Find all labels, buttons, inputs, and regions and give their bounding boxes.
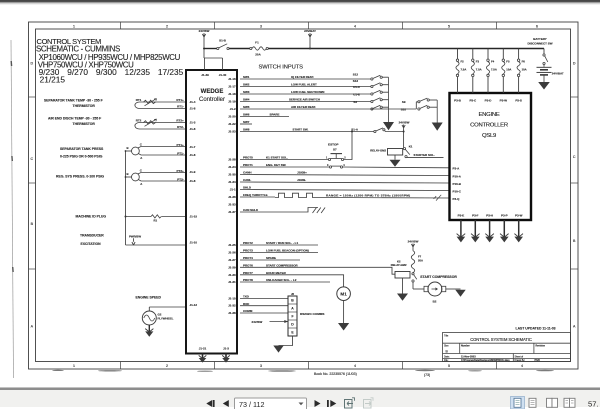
node RT1+ (176, 98, 184, 109)
drawing frame inner border (36, 29, 571, 362)
svg-text:SWITCH INPUTS: SWITCH INPUTS (259, 65, 304, 71)
svg-text:J1-23: J1-23 (228, 130, 236, 134)
svg-text:B: B (127, 172, 129, 176)
svg-text:S3: S3 (353, 100, 357, 104)
svg-text:J1-1: J1-1 (230, 188, 236, 192)
ground B2 (455, 290, 465, 297)
svg-text:MACHINE ID PLUG: MACHINE ID PLUG (76, 215, 107, 219)
svg-text:S1-B: S1-B (219, 39, 226, 43)
svg-text:SPARE: SPARE (270, 113, 280, 117)
wire S9 S10 collector (436, 100, 438, 123)
ground battery (538, 82, 550, 90)
svg-text:C: C (573, 155, 576, 159)
scanned page left edge artifact line (11, 40, 14, 378)
ground under K2 (397, 294, 408, 301)
label reg sys press (56, 175, 104, 179)
svg-text:S9: S9 (402, 100, 406, 104)
fuse F5 10A (502, 49, 505, 94)
svg-text:(73): (73) (424, 373, 430, 377)
svg-text:QSL9: QSL9 (482, 133, 496, 139)
svg-text:57.: 57. (588, 400, 599, 409)
hour meter M1 (337, 287, 351, 301)
svg-text:F3: F3 (476, 60, 480, 64)
svg-text:J1-22: J1-22 (228, 122, 236, 126)
power tap 24V/SW to J5 pin D (252, 320, 289, 324)
svg-text:P10-A: P10-A (453, 174, 462, 178)
pin labels WEDGE left side (190, 100, 198, 307)
label engine speed (136, 296, 162, 300)
wire stub J1-21 ground (199, 354, 207, 363)
icon facing pages (547, 398, 558, 407)
switch S1-A start switch (351, 128, 403, 133)
pin name labels switch rows (243, 75, 250, 132)
svg-text:4: 4 (354, 24, 356, 28)
svg-text:P3-S: P3-S (515, 99, 522, 103)
wire CANL to P10-B (240, 182, 450, 183)
svg-text:THERMISTOR: THERMISTOR (73, 104, 96, 108)
svg-text:J1-34: J1-34 (228, 180, 236, 184)
svg-text:C: C (140, 142, 142, 146)
svg-text:R1: R1 (154, 218, 158, 222)
wire SW8 row start sw (240, 131, 374, 133)
svg-text:EXCITATION: EXCITATION (81, 242, 102, 246)
svg-text:A: A (31, 325, 34, 329)
svg-text:J1-25: J1-25 (228, 243, 236, 247)
wire PROT6 start compressor (240, 267, 395, 274)
svg-text:1: 1 (73, 364, 75, 368)
svg-text:A: A (140, 156, 142, 160)
svg-text:J1-8: J1-8 (190, 179, 196, 183)
label transducer excitation (80, 233, 104, 246)
node RT2+ (176, 119, 184, 130)
switch SW4 contact (371, 98, 389, 103)
svg-text:Number: Number (461, 346, 470, 348)
svg-text:Size: Size (444, 346, 449, 348)
svg-text:K1: K1 (409, 145, 413, 149)
label separator tank press (60, 147, 104, 159)
svg-text:J1-10: J1-10 (190, 241, 198, 245)
switch S10 (401, 105, 437, 111)
svg-text:HOUR METER: HOUR METER (266, 271, 287, 275)
svg-text:P3-D: P3-D (485, 99, 492, 103)
svg-text:P3-P: P3-P (501, 214, 508, 218)
pin labels WEDGE right side lower (228, 243, 236, 315)
svg-text:3: 3 (260, 364, 262, 368)
svg-text:J5: J5 (291, 292, 295, 296)
svg-text:2: 2 (166, 364, 168, 368)
svg-text:S7: S7 (333, 148, 337, 152)
svg-text:RANGE = 150Hz (1200 RPM) TO 37: RANGE = 150Hz (1200 RPM) TO 375Hz (1800R… (326, 193, 410, 197)
svg-text:RT1+: RT1+ (176, 98, 184, 102)
svg-text:SERVICE AIR SWITCH: SERVICE AIR SWITCH (289, 98, 320, 102)
wire TXD (240, 298, 288, 300)
wire SW1 row (240, 78, 371, 80)
svg-text:PWR/SW: PWR/SW (129, 234, 141, 238)
svg-text:SEPARATOR TANK TEMP -30 - 255: SEPARATOR TANK TEMP -30 - 255 F (44, 99, 103, 103)
svg-text:THERMISTOR: THERMISTOR (73, 122, 96, 126)
wire PROT5 K1 start sol (240, 159, 328, 161)
wire M1 to ground (343, 301, 345, 324)
svg-text:J1-3: J1-3 (190, 121, 196, 125)
label page number 73 (424, 373, 430, 377)
svg-text:SEPARATOR TANK PRESS: SEPARATOR TANK PRESS (60, 147, 104, 151)
fuse F4 7.5A (486, 49, 489, 94)
svg-text:J1-33: J1-33 (228, 203, 236, 207)
svg-text:B2: B2 (433, 300, 437, 304)
svg-text:24V/SW: 24V/SW (399, 121, 410, 125)
svg-text:10A: 10A (522, 68, 527, 72)
svg-text:J1-39: J1-39 (201, 73, 209, 77)
pin labels engine controller bottom (458, 214, 523, 218)
svg-text:7.5A: 7.5A (491, 68, 497, 72)
svg-text:J1-9: J1-9 (190, 170, 196, 174)
pin labels WEDGE bottom (199, 347, 230, 351)
svg-text:BATTERY: BATTERY (533, 37, 547, 41)
icon previous view (345, 398, 355, 408)
svg-text:M1: M1 (340, 292, 347, 297)
frame zone numbers bottom (73, 364, 523, 368)
svg-text:J1-8: J1-8 (190, 153, 196, 157)
svg-text:F1: F1 (255, 40, 259, 44)
svg-text:RT2-: RT2- (177, 125, 184, 129)
frame zone letters right (573, 62, 576, 329)
frame zone dividers right (571, 97, 579, 269)
fuse F3 7.5A (471, 49, 474, 94)
icon continuous page (529, 398, 536, 407)
pin labels engine controller left (453, 167, 462, 201)
svg-text:P3-W: P3-W (515, 214, 523, 218)
svg-text:J1-26: J1-26 (228, 251, 236, 255)
svg-text:P3-A: P3-A (453, 167, 461, 171)
svg-text:J1-19: J1-19 (228, 100, 236, 104)
svg-text:ENGINE SPEED: ENGINE SPEED (136, 296, 162, 300)
svg-text:2: 2 (166, 24, 168, 28)
icon next page (315, 400, 321, 407)
svg-text:J1-30: J1-30 (228, 273, 236, 277)
controller U1 WEDGE box (186, 70, 237, 354)
svg-text:P3-B: P3-B (454, 99, 461, 103)
svg-text:S10: S10 (401, 108, 407, 112)
wire PROT8 unloader sol (240, 281, 330, 283)
svg-text:J1-40: J1-40 (219, 73, 227, 77)
battery disconnect switch (528, 37, 553, 67)
wire 24V/SW feed to J1-39 J1-40 (204, 37, 223, 70)
wire COMM (240, 312, 288, 314)
power tap 24V/SW top (199, 29, 210, 37)
label SWITCH INPUTS (259, 65, 304, 71)
emergency stop switch S7 (326, 143, 346, 168)
svg-text:Date:: Date: (444, 356, 450, 359)
svg-text:START COMPRESSOR: START COMPRESSOR (420, 275, 457, 279)
power tap PWR/SW (129, 234, 141, 245)
svg-text:START SW.: START SW. (293, 128, 309, 132)
svg-text:F7: F7 (418, 255, 422, 259)
pin name labels lower rows (243, 241, 253, 313)
svg-text:20A: 20A (255, 53, 261, 57)
icon previous page (223, 400, 229, 407)
frame zone numbers top (73, 24, 538, 28)
relay K2 coil RELAY-GM2 (391, 259, 410, 293)
svg-text:P3-F: P3-F (472, 214, 479, 218)
battery 24V/BAT (537, 67, 564, 82)
svg-text:J1-15: J1-15 (228, 297, 236, 301)
svg-text:B: B (31, 222, 34, 226)
node PT2+ (177, 169, 185, 182)
svg-text:RELAY-GM2: RELAY-GM2 (370, 149, 386, 153)
svg-text:7.5A: 7.5A (476, 68, 482, 72)
svg-text:5: 5 (448, 364, 450, 368)
svg-text:DISCONNECT SW: DISCONNECT SW (528, 42, 553, 46)
switch S1-B (217, 44, 229, 50)
svg-text:Controller: Controller (199, 97, 225, 103)
svg-text:RELAY-GM2: RELAY-GM2 (391, 263, 407, 267)
resistor R1 machine id (126, 215, 187, 218)
svg-text:73 / 112: 73 / 112 (239, 400, 264, 409)
icon first page (206, 400, 214, 407)
thermistor RT2 (135, 119, 186, 129)
wire SW4 row (240, 101, 371, 103)
label machine id plug (76, 215, 107, 219)
schematic title text block (36, 37, 184, 85)
power tap 24V/SW start circuit (399, 121, 410, 148)
drawing frame outer border (29, 22, 579, 369)
ground under G2 (145, 325, 153, 337)
switch SW1 contact (371, 75, 389, 80)
thermistor RT1 (135, 99, 186, 109)
title block texts (444, 334, 546, 362)
svg-text:STARTER SOL.: STARTER SOL. (414, 153, 436, 157)
svg-text:J1939-: J1939- (297, 178, 306, 182)
wire starter sol stub (410, 153, 444, 158)
wire stub J1-3 ground (222, 354, 230, 363)
svg-text:REG. SYS PRESS. 0-100 PSIG: REG. SYS PRESS. 0-100 PSIG (56, 175, 104, 179)
svg-text:J1939+: J1939+ (297, 171, 307, 175)
top window edge bar (0, 0, 600, 5)
pin name labels middle rows (243, 156, 268, 213)
svg-text:ESTOP: ESTOP (328, 143, 338, 147)
transducer PT1 (126, 147, 187, 156)
svg-text:PT2-: PT2- (177, 177, 184, 181)
svg-text:CONTROL SYSTEM SCHEMATIC: CONTROL SYSTEM SCHEMATIC (470, 337, 532, 342)
svg-text:ENG. KEY SW.: ENG. KEY SW. (266, 163, 286, 167)
wire SW7 row (240, 123, 252, 125)
wire SW3 row (240, 93, 371, 95)
relay K1 coil RELAY-GM2 (370, 149, 402, 160)
motor B2 start compressor (413, 282, 461, 296)
svg-text:CONTROLLER: CONTROLLER (470, 123, 508, 129)
label air end disch temp (48, 117, 101, 127)
fuse F2 7.5A (456, 49, 459, 94)
svg-text:C: C (140, 168, 142, 172)
ground under M1 (338, 323, 349, 331)
wire switch bank collector (388, 77, 390, 122)
wire main supply bus (204, 48, 544, 50)
svg-text:6: 6 (536, 24, 538, 28)
switch SW2 contact (371, 83, 389, 88)
svg-text:PT1-: PT1- (177, 151, 184, 155)
wire stub P3-W ground (514, 220, 523, 242)
svg-text:F5: F5 (506, 60, 510, 64)
svg-text:ENGINE: ENGINE (478, 112, 499, 118)
svg-text:WEDGE: WEDGE (201, 89, 224, 95)
switch S9 (402, 98, 437, 109)
wire J5 to ground (279, 336, 293, 346)
icon last page (327, 400, 336, 407)
frame zone letters left (30, 62, 33, 329)
svg-text:F2: F2 (461, 60, 465, 64)
relay K2 contact (412, 273, 417, 289)
svg-text:F4: F4 (491, 60, 495, 64)
svg-text:4: 4 (521, 364, 523, 368)
svg-text:J1-3: J1-3 (223, 347, 229, 351)
svg-text:B: B (127, 146, 129, 150)
svg-text:F6: F6 (522, 60, 526, 64)
relay K1 contact (403, 145, 412, 158)
svg-text:PT1+: PT1+ (177, 143, 185, 147)
svg-text:SPARE: SPARE (266, 256, 276, 260)
wire transducer B chain (125, 151, 127, 245)
svg-text:J1-37: J1-37 (228, 210, 236, 214)
wire stub P3-H ground (485, 220, 494, 242)
pin J1-39 J1-40 labels (201, 73, 226, 77)
svg-text:Book No. 22235576 (11/03): Book No. 22235576 (11/03) (314, 372, 357, 376)
svg-text:1: 1 (73, 24, 75, 28)
svg-text:START / RUN SOL. - L1: START / RUN SOL. - L1 (266, 241, 298, 245)
svg-text:D: D (30, 62, 33, 66)
svg-text:3: 3 (260, 24, 262, 28)
svg-text:AIR END DISCH TEMP -30 - 255 F: AIR END DISCH TEMP -30 - 255 F (48, 117, 101, 121)
fuse F7 20A (411, 251, 414, 273)
generator G2 engine speed pickup (142, 307, 186, 325)
svg-text:LOW FUEL BEACON (OPTION): LOW FUEL BEACON (OPTION) (266, 249, 309, 253)
svg-text:J1-8: J1-8 (190, 107, 196, 111)
svg-text:J1-20: J1-20 (228, 115, 236, 119)
svg-text:24V/SW: 24V/SW (408, 240, 419, 244)
icon next view disabled (364, 398, 374, 408)
svg-text:C:\ProgramData\Designs\JM0935W: C:\ProgramData\Designs\JM0935WCU.dwg (461, 359, 510, 362)
wire SW5 row (240, 108, 416, 110)
svg-text:J1-2: J1-2 (230, 107, 236, 111)
svg-text:K1 START SOL.: K1 START SOL. (266, 156, 288, 160)
switch input labels S12 S13 U1-C U1-E S3 (353, 72, 361, 104)
svg-text:Drawn By:: Drawn By: (515, 359, 526, 362)
label last updated (516, 326, 556, 330)
svg-text:U1-E: U1-E (353, 93, 360, 97)
svg-text:J1-18: J1-18 (228, 92, 236, 96)
wire PROT3 low fuel beacon (240, 252, 318, 254)
svg-text:P10-B: P10-B (453, 182, 461, 186)
svg-text:4: 4 (354, 364, 356, 368)
title block (443, 333, 571, 362)
svg-text:LOW FUEL ALERT: LOW FUEL ALERT (291, 83, 317, 87)
wire PROT7 hour meter (240, 275, 344, 287)
svg-text:P3-H: P3-H (486, 214, 493, 218)
svg-text:24V/SW: 24V/SW (252, 320, 263, 324)
svg-text:File:: File: (444, 360, 449, 362)
svg-text:J1-17: J1-17 (228, 85, 236, 89)
svg-text:S12: S12 (353, 72, 359, 76)
scan smudges bottom (52, 370, 554, 372)
ground S9 S10 (432, 123, 443, 131)
svg-text:10A: 10A (506, 68, 511, 72)
svg-text:RT1-: RT1- (177, 105, 184, 109)
wire ESTOP pin2 to start row (344, 131, 353, 160)
svg-text:J1-7: J1-7 (190, 145, 196, 149)
svg-text:J1-31: J1-31 (228, 280, 236, 284)
connector J5 RS232C (288, 292, 297, 336)
power tap 24V/BAT mid bus (304, 29, 316, 50)
svg-text:RT2+: RT2+ (176, 119, 184, 123)
ground switch bank (383, 122, 394, 130)
svg-text:P3-E: P3-E (458, 214, 465, 218)
svg-text:START COMPRESSOR: START COMPRESSOR (266, 264, 298, 268)
zoom percent label (588, 400, 599, 409)
svg-text:Title: Title (444, 334, 449, 337)
svg-text:D: D (573, 62, 576, 66)
ground J5 (273, 346, 283, 353)
svg-text:J1-36: J1-36 (228, 195, 236, 199)
junction bus at 24V/SW (203, 48, 205, 50)
svg-text:P3-C: P3-C (469, 99, 477, 103)
svg-text:RT1: RT1 (136, 98, 142, 102)
wire RXD (240, 305, 288, 307)
svg-text:J1-28: J1-28 (228, 158, 236, 162)
svg-text:FLYWHEEL: FLYWHEEL (158, 317, 174, 321)
svg-text:U1-C: U1-C (353, 85, 361, 89)
svg-text:J1-29: J1-29 (228, 265, 236, 269)
wire stub P3-P ground (500, 220, 509, 242)
svg-text:20A: 20A (418, 259, 423, 263)
svg-text:J1-16: J1-16 (228, 77, 236, 81)
svg-text:J1-4: J1-4 (190, 100, 196, 104)
frame zone dividers bottom (121, 362, 497, 370)
svg-text:0-225 PSIG OR 0-500 PSIG: 0-225 PSIG OR 0-500 PSIG (60, 155, 103, 159)
svg-text:B: B (446, 350, 449, 354)
icon continuous facing (564, 398, 575, 407)
svg-text:PT2+: PT2+ (177, 169, 185, 173)
wire CAN SHLD to chassis ground (240, 208, 318, 213)
svg-text:LAST UPDATED 11-11-03: LAST UPDATED 11-11-03 (516, 326, 556, 330)
ground under K1 coil (390, 160, 401, 167)
svg-text:P10-C: P10-C (453, 189, 462, 193)
label book number (314, 372, 357, 376)
svg-text:P3-Q: P3-Q (453, 197, 461, 201)
wire stub P3-F ground (471, 220, 480, 242)
svg-text:5: 5 (448, 24, 450, 28)
svg-text:21/215: 21/215 (40, 75, 66, 85)
svg-text:24V/BAT: 24V/BAT (304, 29, 316, 33)
svg-text:AIR FILTER REST.: AIR FILTER REST. (291, 105, 316, 109)
svg-text:J1-24: J1-24 (228, 165, 236, 169)
svg-text:J1-32: J1-32 (228, 304, 236, 308)
svg-text:J1-15: J1-15 (190, 215, 198, 219)
wire FREQ THROTTLE to P3-Q (240, 193, 450, 198)
wire PROT4 spare (240, 259, 300, 261)
node PT1+ (177, 143, 185, 156)
svg-text:J1-27: J1-27 (228, 258, 236, 262)
wire SW6 row spare (240, 116, 289, 118)
svg-text:IQ FILTER REST.: IQ FILTER REST. (291, 75, 314, 79)
svg-text:Sheet of: Sheet of (515, 356, 524, 359)
junction dots B chain (125, 150, 127, 217)
label start compressor (420, 275, 457, 279)
chassis ground CAN SHLD (313, 208, 326, 214)
svg-text:B: B (573, 239, 576, 243)
frame zone dividers left (29, 97, 36, 269)
svg-text:A: A (140, 182, 142, 186)
svg-text:J1-38: J1-38 (228, 311, 236, 315)
svg-text:RT2: RT2 (136, 118, 142, 122)
